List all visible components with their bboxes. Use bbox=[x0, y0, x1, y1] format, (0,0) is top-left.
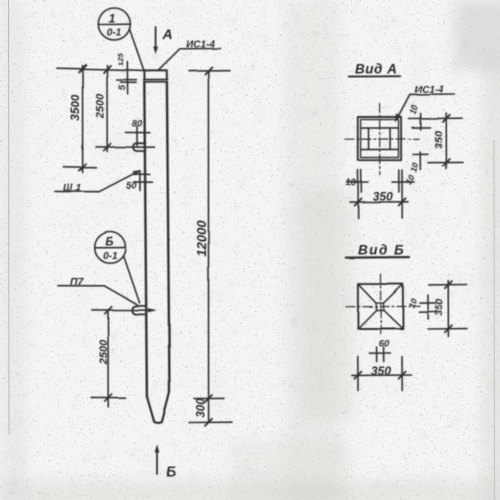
label Sh1 leader bbox=[55, 171, 139, 192]
tick 125 top bbox=[116, 79, 137, 81]
lower 2500 end line bbox=[91, 396, 125, 398]
tick at 3500 line bbox=[79, 65, 86, 72]
extension line 3500 bbox=[82, 66, 84, 173]
svg-text:2500: 2500 bbox=[95, 93, 107, 119]
Vid B bottom ext right bbox=[401, 357, 403, 391]
dim 300 bottom end line bbox=[189, 421, 232, 423]
svg-text:5: 5 bbox=[117, 84, 128, 90]
tick 350A botright bbox=[399, 198, 406, 205]
dim 10 right B tick2 bbox=[420, 311, 437, 313]
svg-text:3500: 3500 bbox=[68, 94, 82, 121]
svg-text:Б: Б bbox=[105, 237, 113, 249]
view arrow B bottom bbox=[156, 449, 158, 474]
tick 300 top bbox=[205, 395, 212, 402]
dim 10 right B tick1 bbox=[420, 302, 436, 304]
svg-text:Вид Б: Вид Б bbox=[358, 243, 405, 258]
dim 50 tick top bbox=[133, 173, 150, 175]
pile cap bbox=[144, 70, 167, 79]
svg-text:350: 350 bbox=[433, 129, 445, 148]
dim 350 right A top end bbox=[428, 117, 462, 119]
Vid A vertical centerline bbox=[379, 104, 381, 175]
Vid B bottom ext left bbox=[357, 357, 359, 391]
Vid A bottom ext line right outer bbox=[401, 170, 403, 218]
Vid B vertical centerline bbox=[380, 274, 382, 334]
dim 10 top right tick2 bbox=[412, 126, 430, 128]
pile cap joint double line bbox=[144, 79, 168, 81]
dim 12000 top end line bbox=[189, 69, 230, 71]
Vid B diagonal TL bbox=[358, 284, 376, 303]
tick 2500 bottom bbox=[104, 144, 111, 151]
tick 350A bottom bbox=[443, 159, 450, 166]
svg-text:12000: 12000 bbox=[194, 220, 209, 257]
svg-text:350: 350 bbox=[373, 190, 393, 204]
svg-text:350: 350 bbox=[371, 364, 391, 378]
tick 12000 top bbox=[205, 67, 212, 74]
dim 350 bottom B line bbox=[352, 374, 412, 376]
svg-text:50: 50 bbox=[126, 181, 137, 192]
dim 60 tick line bbox=[370, 352, 391, 354]
extension line 2500 bbox=[106, 65, 108, 152]
extension line lower 2500 bbox=[107, 310, 109, 407]
svg-text:Вид А: Вид А bbox=[355, 62, 397, 77]
Vid B diagonal BL bbox=[358, 310, 376, 329]
extension line 125 bbox=[126, 62, 128, 94]
lower loop centerline with arrow bbox=[92, 309, 154, 311]
left page edge line bbox=[8, 0, 11, 435]
dim 350 right B top end bbox=[429, 284, 467, 286]
Vid A bottom ext line left outer bbox=[357, 170, 359, 218]
pile tip bbox=[147, 392, 170, 423]
dim 10 right B vertical bbox=[427, 295, 429, 319]
label IS1-4 right leader bbox=[397, 94, 410, 119]
label IS1-4 right underline bbox=[410, 93, 455, 95]
callout balloon B bbox=[95, 232, 126, 263]
right page edge line bbox=[493, 140, 496, 500]
label IS1-4 top leader bbox=[180, 48, 221, 50]
balloon 1 leader bbox=[129, 29, 144, 72]
dim 10 lower right tick bbox=[413, 153, 428, 155]
dim 350 right A bottom end bbox=[428, 161, 463, 163]
dim 350 right B vertical bbox=[447, 281, 449, 337]
label P7 leader bbox=[58, 286, 137, 305]
svg-text:ИС1-4: ИС1-4 bbox=[415, 85, 444, 96]
tick lower 2500 bottom bbox=[105, 394, 112, 401]
3500 bottom end line bbox=[64, 166, 97, 169]
svg-text:П7: П7 bbox=[70, 276, 85, 288]
svg-text:А: А bbox=[162, 26, 173, 42]
dim 300 top end line bbox=[194, 397, 224, 399]
tick 350A top bbox=[443, 115, 450, 122]
dim 60 left vertical bbox=[376, 347, 378, 362]
Vid A mesh horizontal top bbox=[361, 127, 398, 129]
svg-text:125: 125 bbox=[116, 52, 125, 65]
svg-text:2500: 2500 bbox=[98, 339, 110, 365]
svg-text:0-1: 0-1 bbox=[103, 251, 118, 262]
tick at 2500 line bbox=[104, 65, 111, 72]
Vid B diagonal TR bbox=[384, 284, 403, 303]
svg-text:0-1: 0-1 bbox=[107, 28, 122, 39]
svg-text:300: 300 bbox=[196, 398, 208, 418]
dim 10 top right vertical bbox=[419, 113, 421, 130]
Vid A outer square bbox=[358, 117, 401, 160]
dim 350 bottom A line bbox=[350, 201, 408, 203]
Vid B horizontal centerline bbox=[346, 305, 420, 307]
upper loop centerline bbox=[96, 146, 155, 148]
balloon B leader bbox=[124, 256, 140, 302]
dim 50 tick bottom bbox=[134, 181, 153, 183]
Vid B center square bbox=[376, 303, 383, 310]
svg-text:80: 80 bbox=[132, 119, 143, 130]
lower lifting loop bbox=[132, 306, 146, 315]
tick 300 bottom bbox=[205, 419, 212, 426]
svg-text:Ш 1: Ш 1 bbox=[63, 183, 82, 194]
dim 350 right B bottom end bbox=[428, 328, 467, 330]
tick 350B botleft bbox=[354, 372, 361, 379]
Vid A bottom ext line right inner bbox=[398, 170, 400, 192]
svg-text:350: 350 bbox=[433, 299, 445, 317]
dim 80 tick line bbox=[126, 131, 150, 133]
Vid B diagonal BR bbox=[384, 310, 403, 329]
Vid A inner square bbox=[361, 120, 399, 158]
tick 3500 bottom bbox=[79, 164, 86, 171]
tick 350A botleft bbox=[355, 198, 362, 205]
dim 80 vertical bbox=[136, 126, 138, 145]
svg-text:60: 60 bbox=[379, 339, 390, 350]
tick 5 lower bbox=[121, 81, 137, 83]
tick 350B top bbox=[445, 281, 452, 288]
Vid A mesh vertical right bbox=[389, 128, 391, 149]
tick lower 2500 top bbox=[105, 307, 112, 314]
Vid B square bbox=[358, 284, 403, 328]
dim 10 lower right vertical bbox=[419, 152, 421, 170]
pile shaft right edge bbox=[167, 82, 170, 392]
dim 10 bottom left tick bbox=[347, 181, 368, 183]
Vid A horizontal centerline bbox=[345, 138, 419, 140]
dim 350 right A vertical bbox=[445, 113, 447, 169]
pile shaft left edge bbox=[144, 82, 147, 397]
svg-text:Б: Б bbox=[166, 463, 176, 479]
svg-text:ИС1-4: ИС1-4 bbox=[186, 40, 215, 51]
tick 350B bottom bbox=[445, 325, 452, 332]
dim 60 right vertical bbox=[383, 347, 385, 362]
svg-text:10: 10 bbox=[346, 178, 356, 188]
svg-text:1: 1 bbox=[109, 12, 116, 26]
dim 50 vertical bbox=[139, 171, 141, 191]
dim 10 bottom right tick bbox=[392, 181, 414, 183]
Vid A title underline bbox=[349, 75, 400, 77]
Vid B title underline bbox=[346, 256, 409, 259]
top dimension line bbox=[57, 68, 144, 70]
dim 12000 vertical bbox=[207, 70, 209, 422]
section arrow A bbox=[155, 27, 157, 50]
dim 10 top right tick1 bbox=[409, 117, 429, 119]
tick 350B botright bbox=[399, 372, 406, 379]
callout balloon 1 bbox=[98, 8, 130, 40]
upper lifting loop bbox=[133, 143, 146, 151]
Vid A mesh horizontal bottom bbox=[361, 148, 398, 150]
Vid A mesh vertical left bbox=[368, 128, 370, 150]
Vid A bottom ext line left inner bbox=[360, 170, 362, 192]
